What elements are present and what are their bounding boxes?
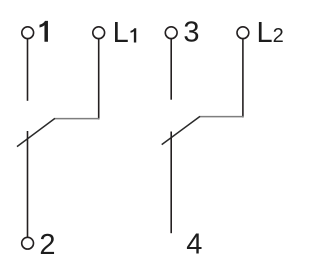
svg-text:4: 4 xyxy=(186,229,202,261)
svg-text:L: L xyxy=(113,17,129,49)
wire from terminal L1 down to switch bar xyxy=(98,39,100,120)
switch S1 lever (diagonal) xyxy=(17,118,55,146)
wire from switch to terminal 2 xyxy=(27,131,29,237)
switch S2 contact bar (horizontal) xyxy=(200,116,244,118)
switch S2 lever (diagonal) xyxy=(162,116,200,144)
switch S1 contact bar (horizontal) xyxy=(55,118,100,120)
svg-text:3: 3 xyxy=(183,17,199,49)
terminal circle 1 xyxy=(22,27,34,39)
terminal circle 2 xyxy=(22,237,34,249)
terminal circle L2 xyxy=(237,27,249,39)
wire from switch to terminal 4 xyxy=(170,132,172,234)
svg-text:2: 2 xyxy=(39,229,55,261)
label 1 xyxy=(40,21,48,42)
wire from terminal 3 down to switch gap xyxy=(170,39,172,100)
wire from terminal L2 down to switch bar xyxy=(242,39,244,118)
wire from terminal 1 down to switch gap xyxy=(27,39,29,101)
terminal circle 3 xyxy=(165,27,177,39)
terminal circle L1 xyxy=(93,27,105,39)
